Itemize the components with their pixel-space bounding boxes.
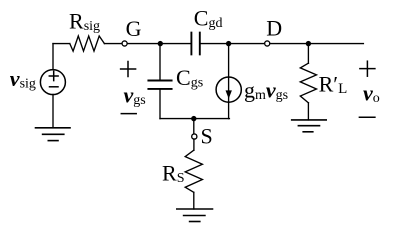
wire gm vertical xyxy=(228,44,230,119)
capacitor C1 Cgd xyxy=(191,33,199,55)
ground (RS) xyxy=(177,209,213,222)
plus sign (vo) xyxy=(360,61,375,76)
junction: drain-side gm tap xyxy=(226,41,231,46)
node G xyxy=(122,41,127,46)
wire S to RS xyxy=(193,139,195,150)
wire S stub xyxy=(193,119,195,134)
wire R'L bottom vertical xyxy=(307,103,309,120)
wire Cgd to gm junction xyxy=(200,43,229,45)
minus sign (vo) xyxy=(359,116,375,118)
wire RS to ground xyxy=(193,192,195,209)
wire node G to Cgd xyxy=(127,43,190,45)
resistor R2 RS xyxy=(185,150,202,192)
junction: R'L tap xyxy=(306,41,311,46)
wire top rail: vsig to Rsig xyxy=(53,43,70,45)
wire R'L top vertical xyxy=(307,44,309,64)
wire Cgs top vertical xyxy=(159,44,161,81)
wire bottom rail Cgs to gm xyxy=(160,118,229,120)
node S xyxy=(192,134,197,139)
plus sign (vgs) xyxy=(121,62,136,77)
wire node D to R'L junction xyxy=(270,43,308,45)
junction: gate node Cgs tap xyxy=(158,41,163,46)
resistor R1 Rsig xyxy=(70,36,105,51)
wire gm junction to node D xyxy=(229,43,265,45)
svg-text:S: S xyxy=(201,124,213,149)
ground (vsig) xyxy=(36,128,71,141)
svg-text:G: G xyxy=(126,16,142,41)
current source U1 gm*vgs xyxy=(216,77,241,102)
ground (R'L) xyxy=(292,120,327,132)
svg-text:D: D xyxy=(266,15,282,40)
node D xyxy=(265,41,270,46)
minus sign (vgs) xyxy=(121,113,136,115)
voltage source V1 vsig xyxy=(40,70,65,95)
wire vsig bottom vertical xyxy=(52,94,54,127)
junction: node S tap xyxy=(191,116,196,121)
wire R'L junction to output xyxy=(308,43,363,45)
wire Rsig to node G xyxy=(104,43,121,45)
resistor R3 R'L xyxy=(300,63,316,103)
wire vsig top vertical xyxy=(52,44,54,70)
wire Cgs bottom vertical xyxy=(159,89,161,119)
capacitor C2 Cgs xyxy=(148,81,171,89)
